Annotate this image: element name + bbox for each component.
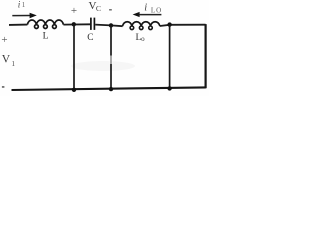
current arrow i1 — [12, 13, 37, 19]
svg-text:C: C — [87, 33, 93, 43]
wire right vertical — [205, 24, 207, 88]
label - of VC — [109, 9, 112, 10]
node junction between L and C — [72, 22, 76, 26]
svg-text:1: 1 — [11, 59, 15, 68]
wire vertical from node B — [110, 25, 112, 89]
wire top-left segment — [9, 24, 27, 26]
scan fade on wire vertical B — [110, 56, 113, 65]
svg-text:C: C — [96, 4, 101, 13]
node junction after C — [109, 23, 113, 27]
svg-text:i: i — [144, 3, 147, 14]
wire L to capacitor — [63, 23, 90, 25]
bottom junction A — [72, 88, 76, 92]
bottom junction D — [167, 86, 171, 90]
inductor LO — [123, 22, 160, 30]
svg-text:V: V — [2, 53, 11, 66]
scan background smudge — [71, 61, 135, 71]
wire LO to right corner — [160, 25, 206, 26]
bottom junction B — [109, 87, 113, 91]
svg-text:1: 1 — [22, 1, 26, 9]
svg-text:L: L — [43, 31, 49, 42]
inductor L — [27, 20, 63, 28]
capacitor C — [91, 18, 95, 30]
svg-text:+: + — [1, 34, 7, 46]
svg-text:LO: LO — [151, 7, 162, 15]
node junction after LO — [167, 22, 171, 26]
current arrow iLO — [133, 12, 162, 17]
wire vertical from node D — [169, 25, 171, 89]
wire capacitor to LO — [95, 25, 122, 27]
svg-text:+: + — [71, 5, 77, 17]
wire vertical from node A — [73, 24, 75, 90]
label - of V1 — [2, 86, 5, 88]
svg-text:i: i — [18, 0, 21, 9]
svg-text:Lo: Lo — [136, 32, 146, 43]
wire bottom — [12, 87, 206, 90]
